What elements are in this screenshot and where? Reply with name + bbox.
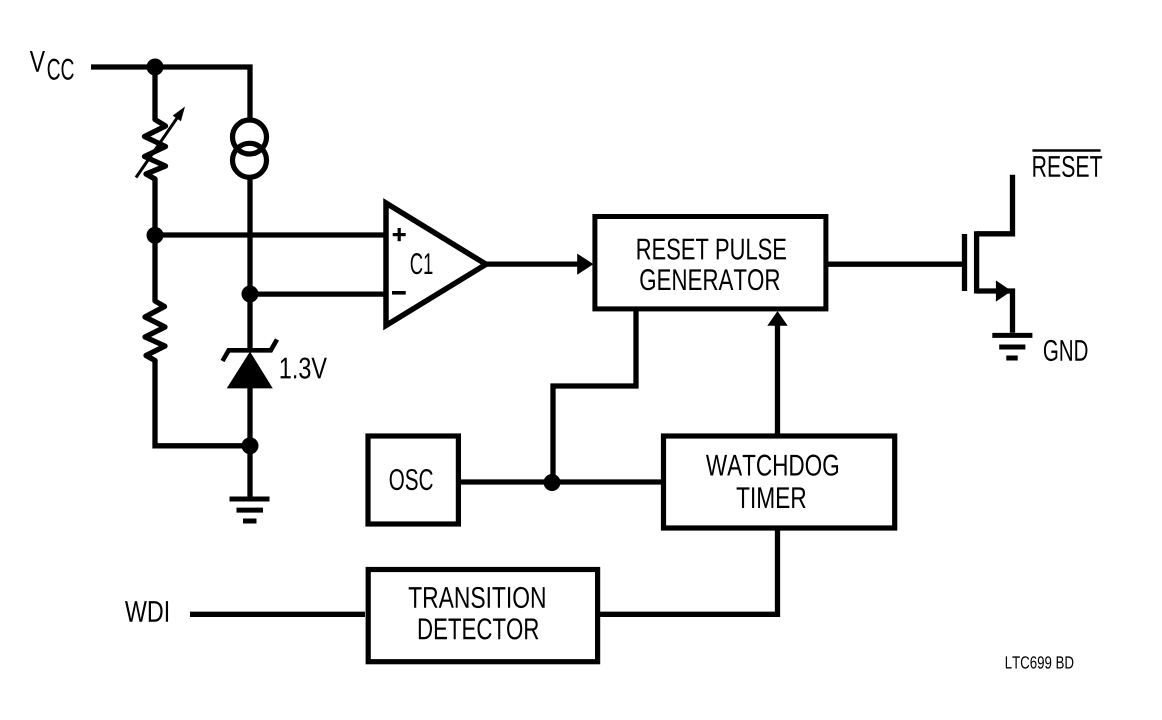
resistor R1 arrow bbox=[136, 117, 178, 177]
node VCC label bbox=[30, 51, 74, 80]
transistor Q1 gate bar bbox=[962, 234, 967, 291]
zener diode D1 cathode bar bbox=[223, 340, 278, 362]
wire - input bbox=[250, 291, 386, 296]
node GND label bbox=[1044, 340, 1087, 361]
node junction dot osc line bbox=[544, 474, 561, 491]
wire left branch upper bbox=[152, 67, 157, 120]
label LTC699 BD bbox=[1006, 656, 1074, 668]
wire + input bbox=[155, 232, 386, 237]
wire left branch lower bbox=[152, 235, 157, 301]
wire left branch to +node bbox=[152, 179, 157, 235]
value label 1.3V bbox=[281, 357, 327, 378]
node junction dot bottom bbox=[242, 437, 259, 454]
wire center branch to zener bbox=[247, 294, 252, 348]
ground symbol right bbox=[992, 335, 1032, 358]
wire VCC top rail bbox=[91, 67, 250, 120]
zener diode D1 anode triangle bbox=[227, 352, 273, 389]
wire WDI input bbox=[190, 612, 365, 617]
transistor Q1 source bbox=[977, 291, 1013, 333]
arrowhead into reset box bbox=[577, 254, 593, 275]
resistor R1 (variable) bbox=[145, 120, 166, 180]
transistor Q1 source arrow bbox=[996, 280, 1012, 301]
resistor R2 bbox=[145, 301, 165, 361]
ground symbol left bbox=[230, 499, 270, 521]
node RESET label bbox=[1033, 156, 1102, 177]
node junction dot - input bbox=[242, 286, 259, 303]
op-amp C1 comparator bbox=[386, 203, 486, 326]
wire center branch mid bbox=[247, 178, 252, 295]
node junction dot + input bbox=[147, 227, 164, 244]
transistor Q1 drain bbox=[977, 175, 1013, 234]
wire comparator output bbox=[486, 261, 579, 266]
wire reset box bottom jog to osc line bbox=[553, 308, 636, 483]
wire transition detector to watchdog timer bbox=[598, 528, 778, 614]
wire zener to bottom node bbox=[247, 388, 252, 446]
current source I1 bbox=[233, 120, 267, 154]
block TRANSITION DETECTOR bbox=[368, 570, 597, 662]
RESET overline bbox=[1032, 149, 1100, 152]
wire osc output bbox=[461, 479, 662, 484]
node junction dot VCC rail bbox=[147, 59, 164, 76]
wire reset box output bbox=[826, 262, 962, 267]
block RESET PULSE GENERATOR bbox=[595, 217, 826, 309]
node WDI label bbox=[125, 601, 168, 622]
wire to ground bbox=[247, 446, 252, 497]
wire left branch bottom corner bbox=[155, 360, 250, 446]
label C1 bbox=[411, 253, 433, 274]
block OSC bbox=[368, 436, 458, 524]
pin - label bbox=[392, 291, 406, 295]
wire watchdog to reset box arrow bbox=[775, 324, 780, 436]
pin + label bbox=[393, 228, 406, 241]
block WATCHDOG TIMER bbox=[664, 436, 895, 528]
transistor Q1 channel bar bbox=[974, 231, 979, 293]
